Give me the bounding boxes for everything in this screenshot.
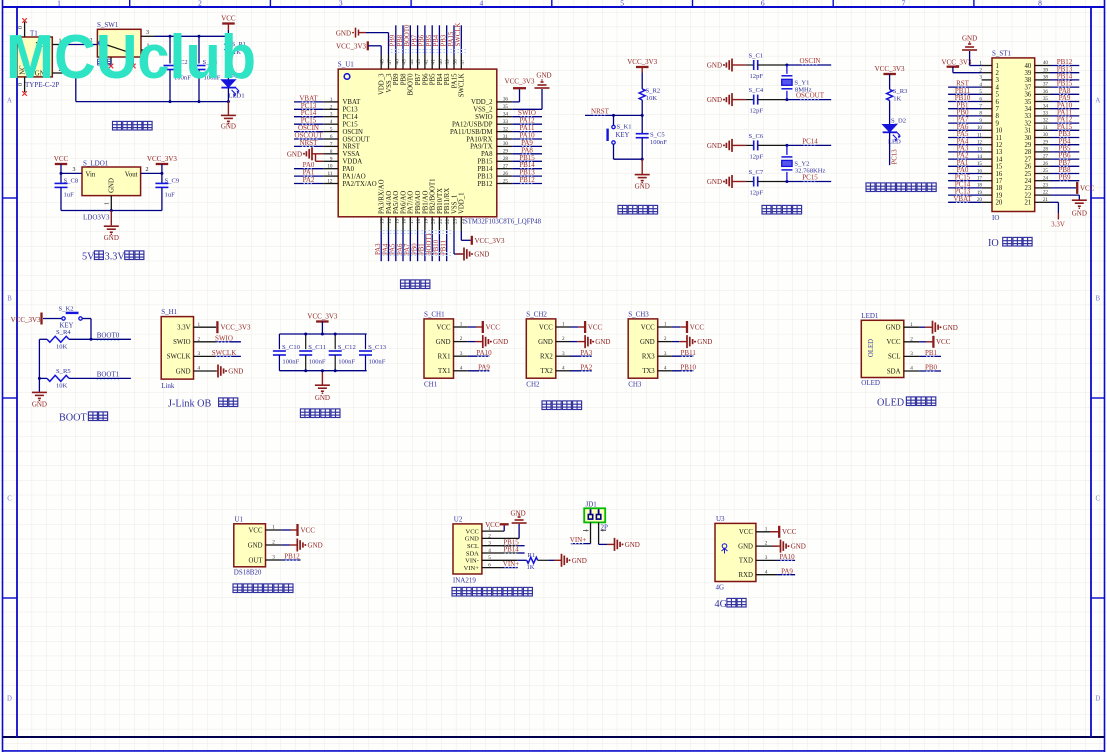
svg-text:PB5: PB5: [430, 73, 437, 85]
svg-text:OLED: OLED: [877, 398, 904, 409]
svg-text:VCC: VCC: [887, 339, 901, 346]
svg-text:22: 22: [445, 218, 451, 224]
svg-text:LED1: LED1: [861, 312, 879, 320]
svg-text:PC14: PC14: [802, 137, 818, 145]
svg-text:25: 25: [503, 178, 509, 184]
svg-text:28: 28: [1043, 147, 1049, 153]
svg-text:GND: GND: [104, 234, 119, 242]
svg-text:3: 3: [664, 351, 667, 357]
svg-text:44: 44: [409, 59, 415, 65]
svg-text:S_C8: S_C8: [64, 178, 79, 185]
svg-text:1: 1: [562, 322, 565, 328]
svg-text:7: 7: [996, 106, 1000, 113]
svg-text:BOOT0: BOOT0: [97, 331, 120, 339]
svg-text:3.3V: 3.3V: [1051, 221, 1065, 229]
svg-text:PC13: PC13: [343, 107, 359, 114]
svg-text:GND: GND: [176, 368, 191, 375]
svg-text:BOOT1: BOOT1: [97, 370, 120, 378]
svg-text:SWCLK: SWCLK: [167, 354, 191, 361]
svg-text:PA15: PA15: [448, 31, 455, 46]
svg-text:IO: IO: [992, 214, 999, 222]
svg-text:PB15: PB15: [477, 159, 493, 166]
svg-text:U3: U3: [716, 515, 725, 523]
svg-text:VCC: VCC: [739, 529, 753, 536]
svg-text:GND: GND: [436, 339, 451, 346]
svg-text:5: 5: [996, 92, 1000, 99]
svg-text:PB0: PB0: [925, 364, 938, 372]
svg-text:PB5: PB5: [426, 34, 433, 46]
svg-text:3: 3: [910, 351, 913, 357]
svg-text:VBAT: VBAT: [343, 99, 362, 106]
svg-text:DS18B20: DS18B20: [234, 569, 262, 577]
svg-text:26: 26: [1025, 164, 1032, 171]
svg-text:27: 27: [503, 164, 509, 170]
svg-text:31: 31: [503, 134, 509, 140]
svg-text:PA10: PA10: [779, 553, 795, 561]
svg-text:36: 36: [1025, 92, 1032, 99]
svg-text:GND: GND: [228, 368, 243, 376]
svg-text:4: 4: [765, 569, 768, 575]
svg-text:GND: GND: [738, 543, 753, 550]
svg-text:11: 11: [328, 171, 333, 177]
svg-text:12pF: 12pF: [750, 153, 764, 160]
svg-text:PB14: PB14: [503, 546, 519, 554]
svg-text:S_LDO1: S_LDO1: [83, 160, 109, 168]
svg-text:4: 4: [460, 365, 463, 371]
svg-text:34: 34: [1025, 106, 1032, 113]
svg-text:4: 4: [480, 0, 484, 8]
svg-text:36: 36: [503, 97, 509, 103]
svg-text:VCC: VCC: [485, 521, 500, 529]
svg-text:S_CH3: S_CH3: [628, 310, 649, 318]
svg-text:STM32F103C8T6_LQFP48: STM32F103C8T6_LQFP48: [464, 219, 542, 226]
svg-text:PA11/USB/DM: PA11/USB/DM: [450, 129, 493, 136]
svg-text:GND: GND: [697, 338, 712, 346]
svg-text:1: 1: [664, 322, 667, 328]
svg-text:PA5/AO: PA5/AO: [393, 191, 400, 214]
svg-text:RX1: RX1: [438, 354, 451, 361]
svg-text:PC14: PC14: [343, 114, 359, 121]
svg-text:30: 30: [1043, 132, 1049, 138]
svg-text:Vout: Vout: [125, 171, 138, 178]
svg-text:S_C5: S_C5: [650, 131, 665, 138]
svg-text:3: 3: [73, 167, 76, 173]
svg-text:GND: GND: [538, 339, 553, 346]
svg-text:PB13: PB13: [477, 173, 493, 180]
svg-text:PB4: PB4: [437, 73, 444, 85]
svg-text:GND: GND: [572, 557, 587, 565]
svg-text:14: 14: [996, 156, 1003, 163]
svg-text:GND: GND: [943, 324, 958, 332]
svg-text:VCC_3V3: VCC_3V3: [147, 155, 177, 163]
svg-text:PA12/USB/DP: PA12/USB/DP: [452, 122, 493, 129]
svg-text:VCC_3V3: VCC_3V3: [942, 58, 972, 66]
svg-text:100nF: 100nF: [282, 359, 299, 366]
svg-text:VSSA: VSSA: [343, 151, 360, 158]
svg-text:SDA: SDA: [887, 368, 901, 375]
svg-text:35: 35: [1025, 99, 1032, 106]
svg-text:PB7: PB7: [411, 34, 418, 46]
svg-text:PB11: PB11: [681, 349, 697, 357]
svg-text:2: 2: [146, 167, 149, 173]
svg-text:VCC_3V3: VCC_3V3: [307, 313, 337, 321]
svg-text:4: 4: [330, 119, 333, 125]
svg-text:2: 2: [330, 104, 333, 110]
svg-text:TXD: TXD: [739, 558, 753, 565]
svg-text:12pF: 12pF: [750, 73, 764, 80]
svg-text:PA15: PA15: [451, 73, 458, 88]
svg-text:VCC: VCC: [641, 324, 655, 331]
svg-text:PC15: PC15: [802, 174, 818, 182]
svg-text:BOOT1: BOOT1: [426, 233, 433, 255]
svg-text:VDD_1: VDD_1: [459, 192, 466, 214]
svg-text:21: 21: [438, 218, 444, 224]
svg-text:NRST: NRST: [591, 107, 610, 115]
svg-text:S_R5: S_R5: [56, 368, 71, 375]
svg-text:VSS_3: VSS_3: [386, 73, 393, 93]
svg-text:VCC: VCC: [249, 527, 263, 534]
svg-text:3: 3: [996, 77, 1000, 84]
svg-text:13: 13: [996, 149, 1003, 156]
svg-text:33: 33: [1025, 113, 1032, 120]
svg-text:37: 37: [1043, 82, 1049, 88]
svg-text:3: 3: [330, 112, 333, 118]
svg-text:VCC: VCC: [437, 324, 451, 331]
svg-text:1: 1: [57, 0, 61, 8]
svg-text:GND: GND: [707, 62, 722, 70]
svg-text:3: 3: [460, 351, 463, 357]
svg-text:A: A: [1095, 98, 1100, 105]
svg-text:VBAT: VBAT: [953, 195, 972, 203]
svg-text:20: 20: [431, 218, 437, 224]
svg-text:S_ST1: S_ST1: [992, 50, 1012, 58]
svg-text:PA4/AO: PA4/AO: [386, 191, 393, 214]
svg-text:27: 27: [1043, 154, 1049, 160]
svg-text:39: 39: [1043, 67, 1049, 73]
svg-text:S_C6: S_C6: [749, 133, 764, 140]
svg-text:15: 15: [996, 164, 1003, 171]
svg-text:8: 8: [996, 113, 1000, 120]
svg-text:S_C7: S_C7: [749, 169, 764, 176]
svg-text:GND: GND: [1072, 210, 1087, 218]
svg-text:OLED: OLED: [861, 379, 880, 387]
svg-text:SWIO: SWIO: [475, 114, 492, 121]
svg-text:22: 22: [1043, 190, 1049, 196]
svg-text:SWIO: SWIO: [173, 339, 190, 346]
svg-text:32: 32: [1025, 120, 1032, 127]
svg-text:12: 12: [996, 142, 1003, 149]
svg-text:20: 20: [996, 200, 1003, 207]
svg-text:38: 38: [1025, 77, 1032, 84]
svg-text:LED1: LED1: [229, 93, 245, 100]
svg-text:2: 2: [272, 540, 275, 546]
svg-text:GND: GND: [791, 543, 806, 551]
svg-text:2: 2: [910, 336, 913, 342]
svg-text:GND: GND: [32, 401, 47, 409]
svg-text:29: 29: [1043, 139, 1049, 145]
svg-text:S_K1: S_K1: [617, 124, 632, 131]
svg-text:37: 37: [460, 59, 466, 65]
svg-text:41: 41: [431, 59, 437, 65]
svg-text:2: 2: [765, 541, 768, 547]
svg-text:SCL: SCL: [467, 543, 479, 550]
svg-text:PB3: PB3: [441, 34, 448, 46]
svg-text:23: 23: [1025, 185, 1032, 192]
svg-text:25: 25: [1043, 168, 1049, 174]
svg-text:GND: GND: [536, 72, 551, 80]
svg-text:40: 40: [1043, 60, 1049, 66]
svg-text:31: 31: [1043, 125, 1049, 131]
svg-text:6: 6: [996, 99, 1000, 106]
svg-text:36: 36: [1043, 89, 1049, 95]
svg-text:35: 35: [1043, 96, 1049, 102]
svg-text:PA4: PA4: [382, 243, 389, 255]
svg-text:VCC: VCC: [782, 528, 797, 536]
svg-text:Link: Link: [161, 382, 175, 390]
svg-text:PB10/TX: PB10/TX: [437, 188, 444, 214]
svg-text:VCC_3V3: VCC_3V3: [11, 316, 41, 324]
svg-text:100nF: 100nF: [309, 359, 326, 366]
svg-text:15: 15: [394, 218, 400, 224]
svg-text:VIN-: VIN-: [465, 558, 479, 565]
svg-text:18: 18: [996, 185, 1003, 192]
svg-text:S_D2: S_D2: [891, 118, 906, 125]
svg-text:PB12: PB12: [477, 181, 493, 188]
svg-text:17: 17: [996, 178, 1003, 185]
svg-text:32.768KHz: 32.768KHz: [795, 167, 826, 174]
svg-text:1uF: 1uF: [64, 192, 75, 199]
svg-text:3: 3: [562, 351, 565, 357]
svg-text:40: 40: [438, 59, 444, 65]
svg-text:GND: GND: [474, 251, 489, 259]
svg-text:3: 3: [198, 351, 201, 357]
svg-text:OSCOUT: OSCOUT: [343, 136, 371, 143]
svg-text:100nF: 100nF: [650, 139, 667, 146]
svg-text:38: 38: [1043, 75, 1049, 81]
svg-text:VCC: VCC: [221, 15, 236, 23]
svg-text:GND: GND: [707, 178, 722, 186]
svg-text:30: 30: [503, 141, 509, 147]
svg-text:PA7: PA7: [404, 243, 411, 255]
svg-text:GND: GND: [287, 150, 302, 158]
svg-text:VCC_3V3: VCC_3V3: [221, 324, 251, 332]
svg-text:33: 33: [1043, 111, 1049, 117]
svg-text:PA9/TX: PA9/TX: [470, 144, 493, 151]
svg-text:1uF: 1uF: [165, 192, 176, 199]
svg-text:23: 23: [1043, 183, 1049, 189]
svg-text:PA6: PA6: [397, 243, 404, 255]
svg-text:D: D: [1095, 696, 1100, 703]
svg-text:12: 12: [327, 179, 333, 185]
svg-text:S_CH2: S_CH2: [526, 310, 547, 318]
svg-text:34: 34: [1043, 103, 1049, 109]
svg-text:PB14: PB14: [477, 166, 493, 173]
svg-text:37: 37: [1025, 84, 1032, 91]
svg-text:PC15: PC15: [343, 122, 359, 129]
svg-text:35: 35: [503, 104, 509, 110]
svg-text:3.3V: 3.3V: [177, 325, 190, 332]
svg-text:6: 6: [761, 0, 765, 8]
svg-text:S_C11: S_C11: [308, 344, 326, 351]
svg-text:3: 3: [339, 0, 343, 8]
svg-text:VCC: VCC: [936, 338, 951, 346]
svg-text:GND: GND: [221, 122, 236, 130]
svg-text:PB8: PB8: [400, 73, 407, 85]
svg-text:SWIO: SWIO: [215, 334, 233, 342]
svg-text:CH1: CH1: [424, 381, 438, 389]
svg-text:21: 21: [1043, 197, 1049, 203]
svg-text:47: 47: [387, 59, 393, 65]
svg-text:1K: 1K: [527, 564, 535, 571]
svg-text:S_Y2: S_Y2: [794, 160, 809, 167]
svg-text:RX2: RX2: [540, 354, 553, 361]
svg-text:OLED: OLED: [868, 339, 875, 357]
svg-text:MCUclub: MCUclub: [6, 23, 256, 92]
svg-text:VCC_3V3: VCC_3V3: [875, 65, 905, 73]
svg-text:CH3: CH3: [628, 381, 642, 389]
svg-text:PA7/AO: PA7/AO: [408, 191, 415, 214]
svg-text:VCC: VCC: [301, 526, 316, 534]
svg-text:10K: 10K: [646, 95, 658, 102]
svg-text:VCC: VCC: [54, 155, 69, 163]
svg-text:VIN+: VIN+: [503, 560, 519, 568]
svg-text:TX1: TX1: [438, 368, 450, 375]
svg-text:VCC_3V3: VCC_3V3: [336, 42, 366, 50]
svg-text:2: 2: [664, 336, 667, 342]
svg-text:RX3: RX3: [642, 354, 655, 361]
svg-text:VCC: VCC: [588, 323, 603, 331]
svg-text:SDA: SDA: [466, 550, 479, 557]
svg-text:100nF: 100nF: [338, 359, 355, 366]
svg-text:PB1/AO: PB1/AO: [422, 190, 429, 214]
svg-text:13: 13: [380, 218, 386, 224]
svg-text:8: 8: [1038, 0, 1042, 8]
svg-text:16: 16: [996, 171, 1003, 178]
svg-text:VCC_3V3: VCC_3V3: [475, 237, 505, 245]
svg-text:1: 1: [996, 63, 999, 70]
svg-text:1: 1: [272, 525, 275, 531]
svg-text:19: 19: [423, 218, 429, 224]
svg-text:S_U1: S_U1: [338, 61, 354, 69]
svg-text:PA10/RX: PA10/RX: [466, 136, 492, 143]
svg-text:10K: 10K: [56, 383, 68, 390]
svg-text:10K: 10K: [56, 344, 68, 351]
svg-text:TX2: TX2: [540, 368, 553, 375]
svg-text:26: 26: [503, 171, 509, 177]
svg-text:VDD_3: VDD_3: [379, 73, 386, 95]
svg-text:A: A: [7, 98, 12, 105]
svg-text:GND: GND: [109, 178, 116, 193]
svg-text:4: 4: [996, 84, 1000, 91]
svg-text:VSS_1: VSS_1: [451, 195, 458, 214]
svg-text:B: B: [1096, 296, 1101, 303]
svg-text:PB6: PB6: [419, 34, 426, 46]
svg-text:PB1: PB1: [419, 243, 426, 255]
svg-text:PC13: PC13: [892, 149, 899, 165]
svg-text:VCC: VCC: [539, 324, 553, 331]
svg-text:1: 1: [765, 526, 768, 532]
svg-text:PB3: PB3: [444, 73, 451, 85]
svg-text:VCC: VCC: [690, 323, 705, 331]
svg-text:2: 2: [996, 70, 1000, 77]
svg-text:3: 3: [272, 555, 275, 561]
svg-text:28: 28: [503, 156, 509, 162]
svg-text:S_Y1: S_Y1: [794, 79, 809, 86]
svg-text:43: 43: [416, 59, 422, 65]
svg-text:S_R3: S_R3: [893, 88, 908, 95]
svg-text:VCC: VCC: [466, 528, 479, 535]
svg-text:S_R4: S_R4: [56, 329, 71, 336]
svg-text:4G: 4G: [716, 584, 725, 592]
svg-text:22: 22: [1025, 192, 1032, 199]
svg-text:33: 33: [503, 119, 509, 125]
svg-text:VIN+: VIN+: [570, 536, 586, 544]
svg-text:4: 4: [664, 365, 667, 371]
svg-text:VDDA: VDDA: [343, 159, 363, 166]
svg-text:3: 3: [979, 75, 982, 81]
svg-text:OSCIN: OSCIN: [799, 57, 820, 65]
svg-text:PA2/TX/AO: PA2/TX/AO: [343, 181, 377, 188]
svg-text:PA8: PA8: [481, 151, 493, 158]
svg-text:PB9: PB9: [393, 73, 400, 85]
svg-text:PA3: PA3: [375, 243, 382, 255]
svg-text:C: C: [7, 496, 12, 503]
svg-text:7: 7: [330, 141, 333, 147]
svg-text:C: C: [1096, 496, 1101, 503]
svg-text:S_C1: S_C1: [749, 53, 764, 60]
svg-text:VIN+: VIN+: [464, 565, 480, 572]
svg-text:S_C10: S_C10: [282, 344, 301, 351]
svg-text:29: 29: [1025, 142, 1032, 149]
svg-text:PA6/AO: PA6/AO: [400, 191, 407, 214]
svg-text:J-Link OB: J-Link OB: [168, 399, 212, 410]
svg-text:BOOT0: BOOT0: [408, 73, 415, 96]
svg-text:7: 7: [902, 0, 906, 8]
svg-text:S_C4: S_C4: [749, 87, 764, 94]
svg-text:PA2: PA2: [580, 363, 592, 371]
svg-text:PB1: PB1: [925, 349, 938, 357]
svg-text:18: 18: [416, 218, 422, 224]
svg-text:OSCIN: OSCIN: [343, 129, 363, 136]
svg-text:GND: GND: [511, 510, 526, 518]
svg-text:2: 2: [460, 336, 463, 342]
svg-text:S_K2: S_K2: [59, 306, 74, 313]
svg-text:46: 46: [394, 59, 400, 65]
svg-text:PB10: PB10: [680, 363, 696, 371]
svg-text:PA9: PA9: [478, 363, 490, 371]
svg-text:3.3V: 3.3V: [105, 252, 126, 263]
svg-text:GND: GND: [248, 542, 263, 549]
svg-text:31: 31: [1025, 128, 1032, 135]
svg-text:2: 2: [198, 0, 202, 8]
svg-text:IO: IO: [988, 238, 999, 249]
svg-text:PB0: PB0: [411, 243, 418, 255]
svg-text:24: 24: [1025, 178, 1032, 185]
svg-text:CH2: CH2: [526, 381, 540, 389]
svg-text:24: 24: [460, 218, 466, 224]
svg-text:PB2/BOOT1: PB2/BOOT1: [430, 178, 437, 214]
svg-text:PA2: PA2: [303, 176, 315, 184]
svg-text:INA219: INA219: [453, 577, 476, 585]
svg-text:12pF: 12pF: [750, 190, 764, 197]
svg-text:1K: 1K: [893, 96, 901, 103]
svg-text:GND: GND: [465, 536, 479, 543]
svg-text:NRST: NRST: [300, 139, 319, 147]
svg-text:32: 32: [1043, 118, 1049, 124]
svg-text:VCC_3V3: VCC_3V3: [627, 58, 657, 66]
svg-text:19: 19: [996, 192, 1003, 199]
svg-text:24: 24: [1043, 175, 1049, 181]
